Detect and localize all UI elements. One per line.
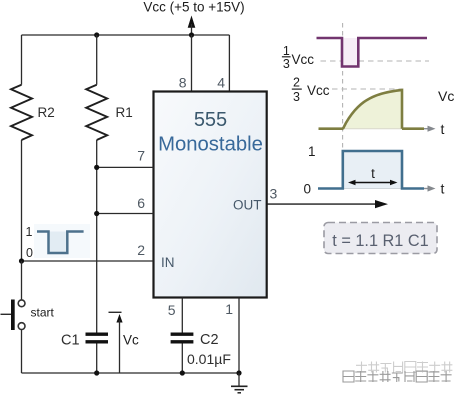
capacitor C1 (61, 333, 108, 349)
pin 4 label (217, 75, 225, 91)
wire pin2 node to start button (21, 261, 23, 300)
svg-text:4: 4 (217, 75, 225, 91)
svg-text:t: t (371, 166, 375, 181)
wire start button to bottom rail (21, 330, 23, 373)
pin 7 label (137, 148, 145, 164)
svg-text:1: 1 (225, 301, 233, 317)
label 2/3 Vcc (292, 76, 330, 105)
trigger input waveform (317, 38, 428, 67)
dashed 1/3 Vcc level line (321, 60, 430, 62)
label 1 output high (308, 144, 316, 159)
node dashed trigger timeline (342, 23, 344, 150)
pin 5 label (168, 302, 176, 318)
svg-text:start: start (31, 306, 55, 320)
wire R1 bottom down to C1 (96, 140, 98, 333)
svg-text:5: 5 (168, 302, 176, 318)
wire top power rail (22, 34, 230, 36)
svg-text:3: 3 (293, 90, 300, 104)
resistor R1 (86, 35, 133, 140)
svg-text:555: 555 (194, 109, 227, 131)
svg-text:IN: IN (161, 255, 175, 270)
label 1/3 Vcc (282, 44, 314, 71)
svg-text:8: 8 (179, 75, 187, 91)
trigger pulse icon at pin 2 (26, 224, 90, 260)
svg-text:1: 1 (26, 225, 33, 239)
watermark (343, 362, 452, 383)
node junction pin 6 (94, 211, 99, 216)
svg-text:Vcc: Vcc (292, 52, 315, 67)
svg-text:1: 1 (283, 44, 290, 58)
C2 value label (187, 351, 231, 367)
svg-text:R2: R2 (38, 105, 55, 120)
wire bottom rail (22, 372, 240, 374)
net Vcc label (143, 0, 244, 15)
svg-text:Vcc: Vcc (307, 83, 330, 98)
svg-text:1: 1 (308, 144, 316, 159)
resistor R2 (11, 35, 55, 140)
pulse width arrow t (348, 166, 398, 185)
ground (231, 373, 248, 393)
pin 1 label (225, 301, 233, 317)
node junction ground (236, 370, 241, 375)
svg-text:OUT: OUT (233, 198, 262, 213)
wire C2 to bottom rail (181, 344, 183, 374)
svg-text:Vc: Vc (438, 88, 454, 104)
capacitor voltage Vc waveform (319, 90, 436, 132)
wire R2 bottom to pin2 node (21, 140, 23, 261)
svg-text:t: t (441, 121, 445, 137)
formula box t = 1.1 R1 C1 (324, 223, 437, 254)
pin 3 label (270, 186, 278, 202)
pin 2 label (137, 242, 145, 258)
svg-text:C1: C1 (61, 333, 80, 349)
wire pin 1 down (238, 298, 240, 374)
label t axis output (441, 181, 445, 197)
label t axis Vc (441, 121, 445, 137)
svg-text:t: t (441, 181, 445, 197)
capacitor C2 (171, 332, 219, 348)
label Vc axis (438, 88, 454, 104)
output waveform (318, 151, 436, 192)
switch start push-button (1, 300, 55, 331)
svg-text:Monostable: Monostable (158, 134, 263, 156)
svg-text:0: 0 (303, 182, 311, 197)
svg-text:7: 7 (137, 148, 145, 164)
pin 6 label (137, 195, 145, 211)
pin 8 label (179, 75, 187, 91)
svg-text:2: 2 (137, 242, 145, 258)
net Vcc arrow symbol (188, 17, 195, 36)
svg-text:2: 2 (293, 76, 300, 90)
svg-text:3: 3 (270, 186, 278, 202)
node junction pin 7 (94, 165, 99, 170)
node junction pin 2 (19, 258, 24, 263)
wire pin 5 down (181, 298, 183, 333)
svg-text:0: 0 (26, 246, 33, 260)
wire pin 4 to rail (228, 35, 230, 92)
pin OUT label (233, 198, 262, 213)
svg-text:Vc: Vc (123, 333, 139, 348)
wire pin 7 (97, 166, 154, 168)
node junction Vcc rail (189, 32, 194, 37)
node junction C2 bottom (180, 370, 185, 375)
svg-text:R1: R1 (116, 105, 133, 120)
svg-text:Vcc (+5 to +15V): Vcc (+5 to +15V) (143, 0, 244, 15)
node junction C1 bottom (94, 370, 99, 375)
wire pin 3 OUT with arrow (267, 200, 388, 208)
wire pin 8 to rail (191, 35, 193, 92)
op-amp U1 555 timer body (154, 92, 267, 298)
label 0 output low (303, 182, 311, 197)
wire C1 to bottom rail (96, 344, 98, 374)
wire pin 6 (97, 213, 154, 215)
svg-text:3: 3 (283, 57, 290, 71)
dashed 2/3 Vcc level line (332, 88, 402, 90)
Vc measurement arrow (109, 312, 140, 373)
svg-text:0.01µF: 0.01µF (187, 351, 231, 367)
pin IN label (161, 255, 175, 270)
node junction R1 top rail (94, 32, 99, 37)
svg-text:t = 1.1 R1 C1: t = 1.1 R1 C1 (332, 232, 428, 250)
svg-text:6: 6 (137, 195, 145, 211)
svg-text:C2: C2 (200, 332, 219, 348)
wire pin 2 (22, 260, 154, 262)
